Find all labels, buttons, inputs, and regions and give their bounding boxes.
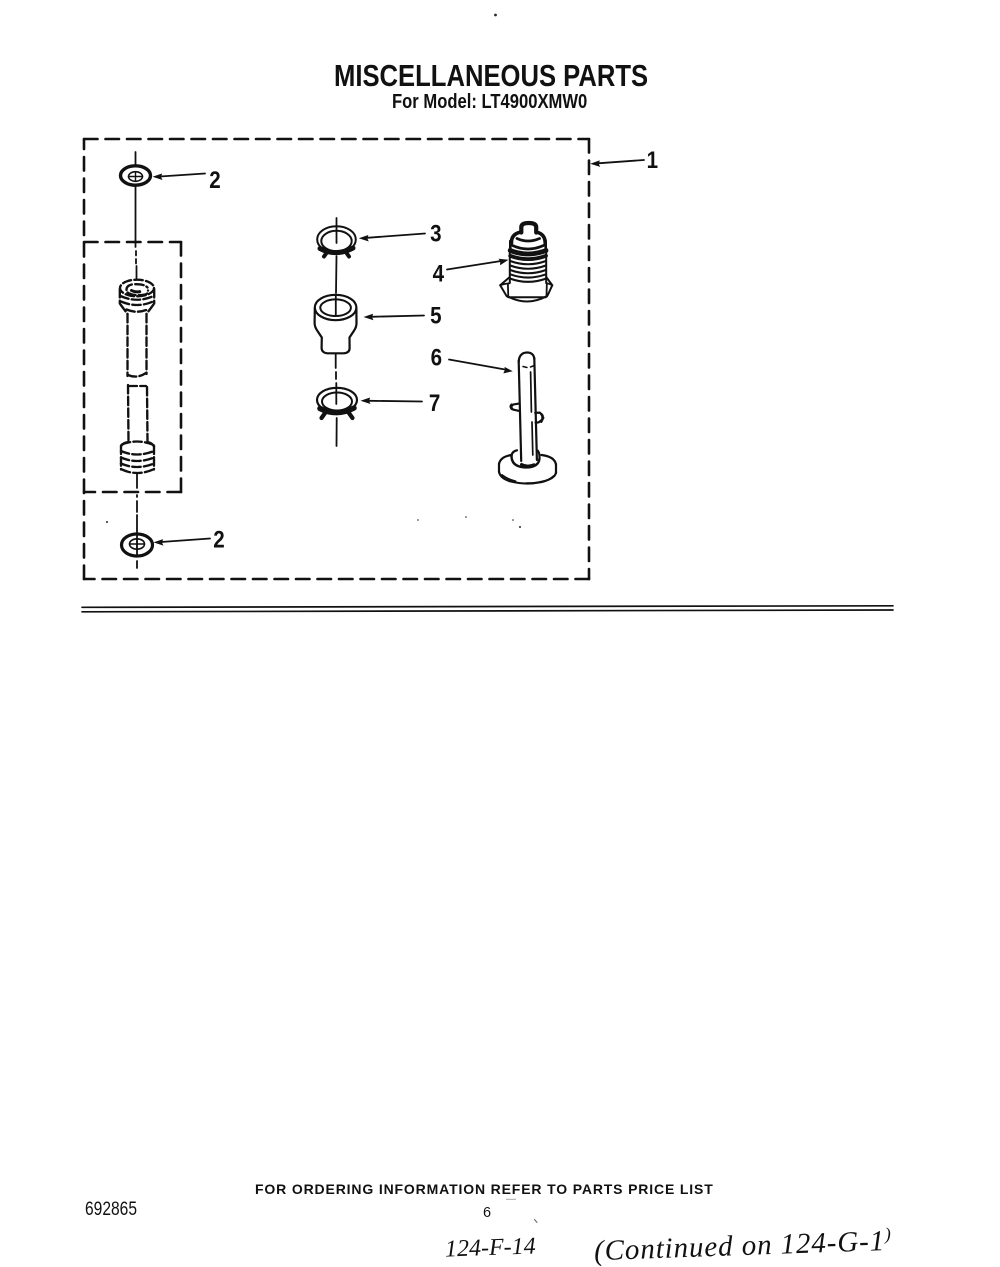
svg-text:1: 1 xyxy=(647,146,658,173)
svg-text:6: 6 xyxy=(431,344,442,371)
svg-text:2: 2 xyxy=(213,526,224,553)
collar step xyxy=(511,232,520,243)
base disc bottom arcs xyxy=(499,472,556,484)
fill tube 6 xyxy=(499,352,556,483)
flange xyxy=(509,241,512,249)
hose assembly (dashed) xyxy=(120,280,154,473)
svg-text:3: 3 xyxy=(430,220,441,247)
threaded barrel xyxy=(509,248,511,283)
upper tube xyxy=(126,314,128,376)
label 2 (bottom) with arrow xyxy=(154,539,211,546)
handwritten page ref xyxy=(445,1233,537,1263)
svg-text:5: 5 xyxy=(430,302,441,329)
tube body xyxy=(519,352,535,362)
handwritten continued note xyxy=(593,1224,892,1267)
hex nut xyxy=(500,277,510,297)
clip 7 xyxy=(317,388,357,418)
footer ordering note xyxy=(255,1181,714,1197)
label 4 with arrow xyxy=(447,259,509,270)
scan specks xyxy=(106,14,537,1223)
neck taper xyxy=(121,305,128,315)
label 6 with arrow xyxy=(449,360,513,374)
svg-text:7: 7 xyxy=(429,389,440,416)
label 2 (top) with arrow xyxy=(153,174,206,181)
label 3 with arrow xyxy=(359,234,425,242)
label 7 with arrow xyxy=(361,398,423,405)
subtitle model number xyxy=(392,90,587,114)
washer 2 (bottom) xyxy=(122,534,153,556)
inner tube line xyxy=(531,372,533,455)
clip 3 xyxy=(317,226,356,256)
label 5 with arrow xyxy=(364,314,425,321)
outer dashed box (item 1 bracket) xyxy=(84,139,589,579)
svg-text:2: 2 xyxy=(209,166,220,193)
centerline left column xyxy=(136,152,138,568)
svg-text:4: 4 xyxy=(433,260,445,287)
washer 2 (top) xyxy=(121,166,151,185)
top coupling top ellipse xyxy=(120,280,154,297)
bushing 5 xyxy=(315,295,357,354)
left barb xyxy=(511,404,519,411)
hub xyxy=(511,456,539,468)
bottom coupling xyxy=(121,442,128,447)
top coupling body xyxy=(119,289,121,304)
base disc sides xyxy=(498,464,500,473)
lower tube xyxy=(127,385,130,442)
callout digits xyxy=(209,146,658,553)
screw 4 xyxy=(500,223,552,301)
double rule under diagram xyxy=(82,606,893,612)
centerline middle column xyxy=(336,218,337,446)
label 1 with arrow xyxy=(590,160,644,167)
knob cap xyxy=(521,223,536,233)
base disc outer top arc xyxy=(499,455,512,464)
inner dashed box around hose xyxy=(84,242,181,492)
footer part number xyxy=(85,1199,137,1221)
right barb xyxy=(535,413,542,423)
title xyxy=(334,59,648,94)
footer page number xyxy=(483,1205,491,1221)
